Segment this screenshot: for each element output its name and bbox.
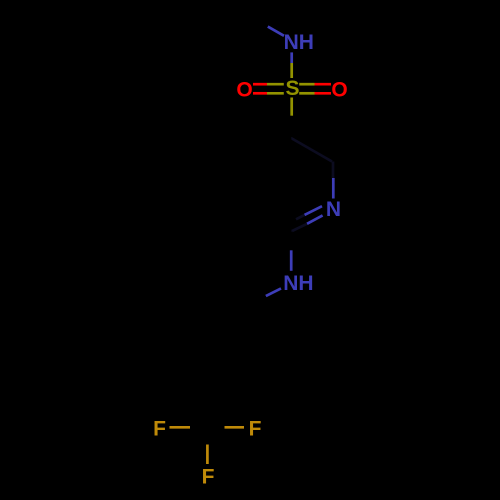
svg-text:F: F	[202, 465, 215, 488]
wire pyridine N1=C2 inner line (nitrogen half)	[305, 206, 323, 215]
wire CH3 to top NH (carbon half, near-invisible)	[250, 18, 268, 27]
wire pyridine N1=C2 main line (carbon half)	[291, 224, 307, 232]
wire CF3 C to bottom F (fluorine half, gold)	[206, 445, 209, 465]
wire phenyl ring C3'-C4'	[168, 353, 209, 377]
svg-text:F: F	[249, 417, 262, 440]
wire phenyl ring C6'-C1'	[209, 282, 250, 306]
wire phenyl ring C5'-C6'	[168, 282, 209, 306]
wire pyridine C3-C6	[249, 162, 252, 209]
wire pyridine C4-N1 (nitrogen half)	[332, 178, 335, 199]
wire pyridine C2-C3	[250, 209, 291, 232]
wire bottom NH to phenyl C1' (carbon half)	[250, 296, 266, 305]
wire phenyl ring C1'-C2'	[249, 306, 252, 353]
svg-text:O: O	[236, 78, 252, 101]
wire S=O right double bond lower line	[299, 92, 314, 95]
wire CF3 C to right F (carbon half)	[208, 426, 225, 429]
wire C3' to CF3 carbon	[208, 376, 210, 427]
wire top NH to S (sulfur half)	[290, 63, 293, 78]
wire pyridine C4-N1 (carbon half)	[332, 162, 335, 179]
wire CF3 C to left F (carbon half)	[190, 426, 208, 429]
wire pyridine C5-C4	[291, 138, 332, 162]
wire S to ring C5 (sulfur half)	[290, 98, 293, 116]
wire S to ring C5 (carbon half)	[290, 116, 293, 138]
svg-text:NH: NH	[283, 272, 313, 295]
wire pyridine C6-C5	[250, 138, 291, 162]
svg-text:O: O	[331, 78, 347, 101]
svg-text:NH: NH	[284, 31, 314, 54]
wire bottom NH to phenyl C1' (nitrogen half)	[266, 288, 281, 296]
wire S=O right double bond upper line	[299, 83, 314, 86]
wire top NH to S (nitrogen half)	[290, 52, 293, 63]
wire CF3 C to right F (fluorine half, gold)	[225, 426, 245, 429]
wire pyridine N1=C2 main line (nitrogen half)	[307, 215, 323, 223]
wire S=O left double bond upper line	[253, 83, 267, 86]
wire C2 to bottom NH (carbon half)	[290, 232, 293, 251]
wire CH3 to top NH (nitrogen half, blue)	[268, 27, 284, 36]
wire CF3 C to left F (fluorine half, gold)	[170, 426, 191, 429]
wire S=O left double bond lower line	[253, 92, 267, 95]
wire phenyl ring C2'-C3'	[209, 353, 250, 377]
svg-text:N: N	[326, 198, 341, 221]
wire phenyl ring C4'-C5'	[167, 306, 170, 353]
wire C2 to bottom NH (nitrogen half)	[290, 250, 293, 270]
wire pyridine N1=C2 inner line (carbon half)	[296, 215, 305, 219]
svg-text:S: S	[285, 77, 299, 100]
svg-text:F: F	[153, 417, 166, 440]
wire CF3 C to bottom F (carbon half)	[206, 427, 209, 445]
